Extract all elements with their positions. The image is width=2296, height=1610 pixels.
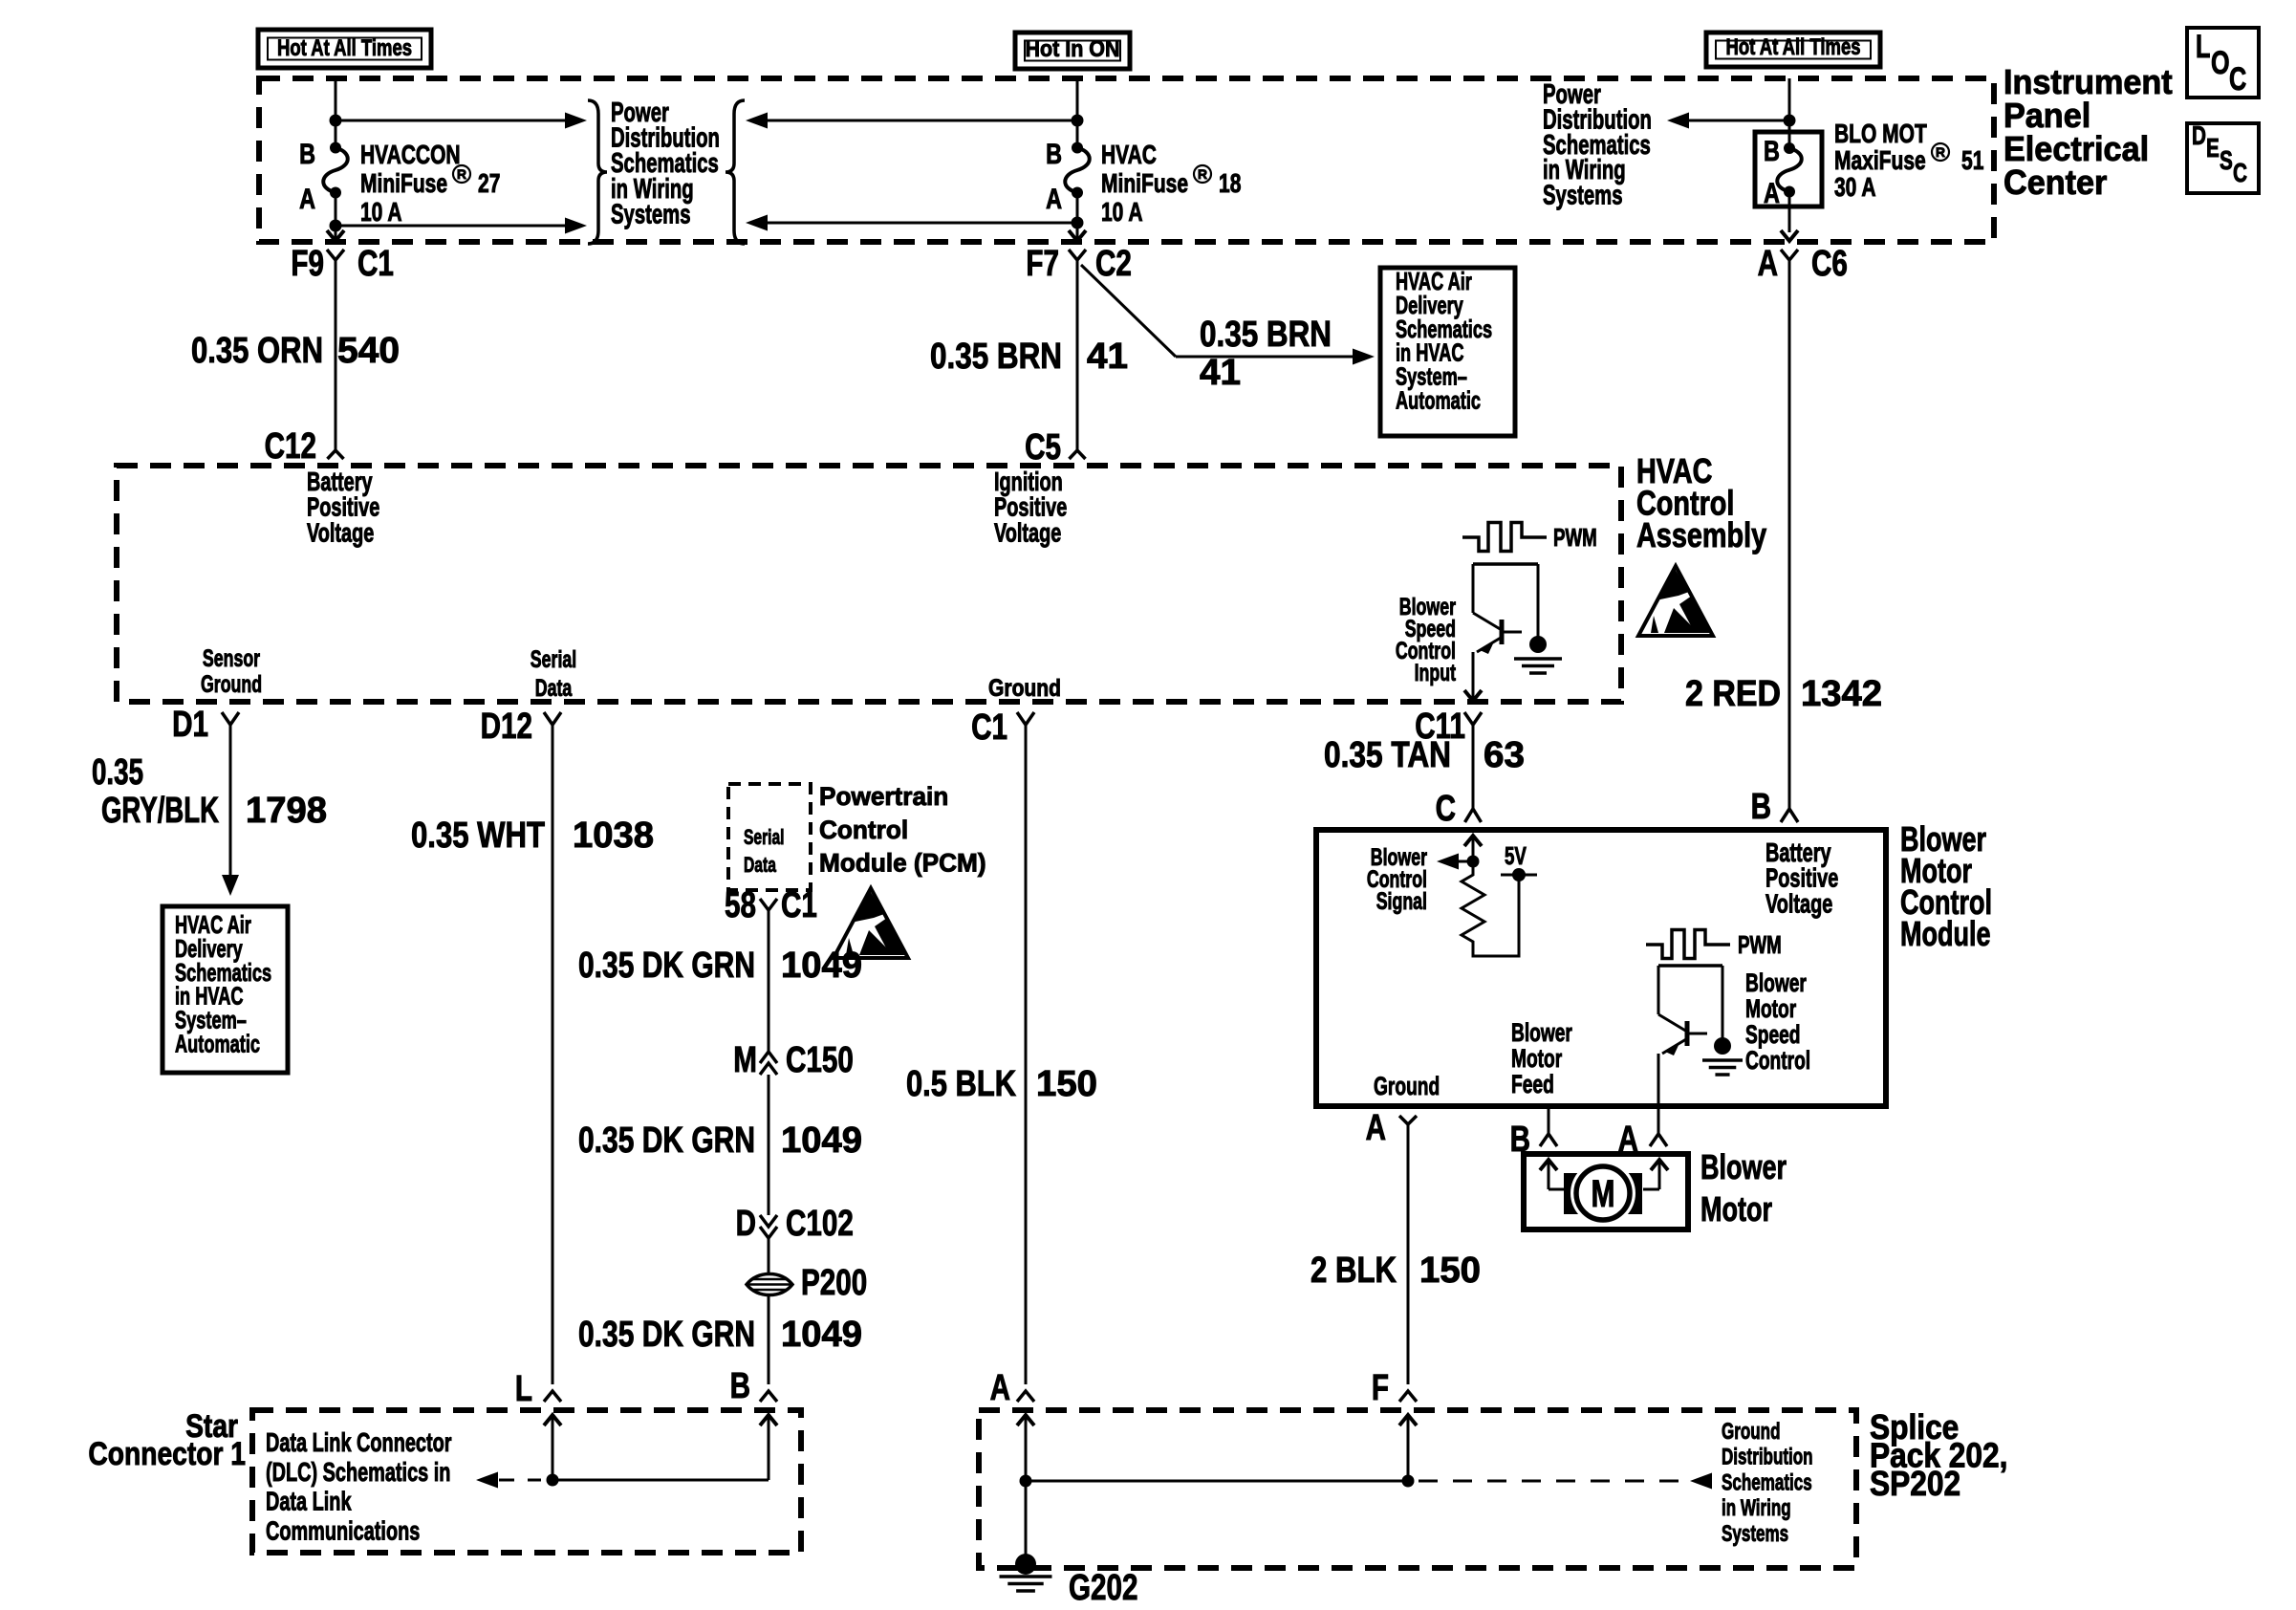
svg-text:D12: D12 (481, 707, 532, 747)
svg-text:C2: C2 (1095, 244, 1132, 284)
svg-text:(DLC) Schematics in: (DLC) Schematics in (266, 1457, 450, 1487)
svg-text:0.5 BLK: 0.5 BLK (906, 1064, 1016, 1104)
svg-text:Ground: Ground (988, 675, 1061, 702)
svg-text:Communications: Communications (266, 1515, 420, 1545)
svg-text:Hot In ON: Hot In ON (1026, 36, 1120, 62)
svg-text:63: 63 (1484, 735, 1525, 775)
svg-text:Ground: Ground (1722, 1419, 1781, 1445)
svg-text:M: M (1592, 1173, 1615, 1215)
svg-text:Control: Control (819, 816, 908, 844)
svg-text:5V: 5V (1505, 841, 1527, 870)
svg-text:C1: C1 (781, 885, 817, 925)
svg-text:0.35 BRN: 0.35 BRN (1200, 315, 1332, 355)
svg-text:Feed: Feed (1511, 1070, 1554, 1099)
svg-text:R: R (1198, 166, 1207, 182)
svg-text:A: A (299, 184, 315, 215)
svg-text:1049: 1049 (781, 1120, 862, 1161)
svg-text:Schematics: Schematics (1722, 1469, 1812, 1495)
svg-text:Module (PCM): Module (PCM) (819, 849, 986, 878)
svg-text:MaxiFuse: MaxiFuse (1834, 145, 1926, 175)
svg-text:0.35 DK GRN: 0.35 DK GRN (578, 1120, 755, 1161)
svg-text:C: C (2233, 158, 2247, 187)
svg-text:1049: 1049 (781, 946, 862, 986)
svg-text:0.35 DK GRN: 0.35 DK GRN (578, 946, 755, 986)
svg-text:Control: Control (1745, 1046, 1810, 1075)
svg-text:PWM: PWM (1553, 523, 1597, 552)
svg-text:Blower: Blower (1511, 1018, 1572, 1047)
svg-text:Data Link Connector: Data Link Connector (266, 1427, 452, 1457)
svg-text:A: A (1764, 178, 1780, 209)
svg-text:Automatic: Automatic (175, 1030, 260, 1058)
svg-text:PWM: PWM (1738, 930, 1782, 959)
svg-text:B: B (1764, 136, 1780, 167)
svg-text:B: B (299, 139, 315, 170)
svg-text:1342: 1342 (1801, 674, 1882, 714)
svg-text:M: M (733, 1040, 757, 1080)
svg-text:1038: 1038 (573, 816, 654, 856)
svg-text:1049: 1049 (781, 1315, 862, 1355)
svg-text:B: B (1751, 787, 1771, 827)
svg-text:Connector 1: Connector 1 (88, 1436, 246, 1472)
svg-text:27: 27 (478, 168, 500, 198)
svg-text:D: D (2192, 120, 2206, 150)
svg-text:Input: Input (1415, 660, 1457, 686)
svg-text:0.35 DK GRN: 0.35 DK GRN (578, 1315, 755, 1355)
svg-text:R: R (457, 166, 466, 182)
svg-text:2 RED: 2 RED (1685, 674, 1781, 714)
svg-text:10 A: 10 A (1101, 197, 1143, 227)
svg-text:Ground: Ground (1374, 1072, 1440, 1100)
svg-text:R: R (1936, 144, 1945, 160)
svg-text:O: O (2211, 45, 2230, 81)
svg-text:L: L (2196, 29, 2210, 65)
svg-text:C: C (1436, 789, 1456, 829)
svg-text:Automatic: Automatic (1396, 386, 1481, 415)
svg-text:C1: C1 (971, 707, 1007, 748)
svg-text:D: D (736, 1204, 756, 1244)
svg-text:HVACCON: HVACCON (360, 140, 461, 169)
svg-text:B: B (1510, 1120, 1530, 1160)
svg-text:Motor: Motor (1745, 994, 1797, 1023)
svg-text:B: B (730, 1366, 750, 1406)
svg-text:Signal: Signal (1376, 888, 1427, 915)
svg-text:A: A (1046, 184, 1062, 215)
svg-text:Systems: Systems (1722, 1521, 1788, 1547)
svg-text:51: 51 (1961, 145, 1983, 175)
svg-text:1798: 1798 (246, 791, 327, 831)
svg-text:C102: C102 (786, 1204, 854, 1244)
svg-text:F7: F7 (1026, 244, 1059, 284)
svg-text:Speed: Speed (1745, 1020, 1801, 1049)
svg-text:0.35 BRN: 0.35 BRN (930, 337, 1062, 377)
svg-text:A: A (1366, 1108, 1386, 1148)
svg-text:Blower: Blower (1745, 968, 1807, 997)
svg-text:150: 150 (1419, 1251, 1481, 1291)
svg-text:BLO MOT: BLO MOT (1834, 119, 1927, 148)
svg-text:58: 58 (725, 885, 756, 925)
svg-text:150: 150 (1036, 1064, 1097, 1104)
svg-text:C12: C12 (265, 426, 316, 467)
svg-text:Motor: Motor (1700, 1189, 1772, 1229)
svg-text:C5: C5 (1025, 427, 1061, 468)
svg-text:SP202: SP202 (1870, 1464, 1960, 1503)
svg-text:2 BLK: 2 BLK (1310, 1251, 1397, 1291)
svg-text:D1: D1 (172, 705, 208, 745)
svg-text:Sensor: Sensor (203, 645, 260, 672)
svg-text:Voltage: Voltage (1765, 888, 1832, 918)
svg-text:C150: C150 (786, 1040, 854, 1080)
svg-text:540: 540 (337, 331, 400, 371)
svg-text:Ground: Ground (201, 671, 262, 698)
svg-text:E: E (2206, 133, 2220, 163)
svg-text:MiniFuse: MiniFuse (360, 168, 447, 198)
svg-text:Blower: Blower (1700, 1147, 1787, 1186)
svg-text:18: 18 (1219, 168, 1241, 198)
svg-text:41: 41 (1087, 337, 1128, 377)
svg-text:Voltage: Voltage (994, 517, 1061, 547)
svg-text:P200: P200 (801, 1263, 867, 1303)
svg-text:Hot At All Times: Hot At All Times (1726, 34, 1861, 60)
svg-text:C6: C6 (1811, 244, 1848, 284)
svg-text:HVAC: HVAC (1101, 140, 1157, 169)
svg-text:Powertrain: Powertrain (819, 782, 948, 811)
svg-text:Motor: Motor (1511, 1044, 1563, 1073)
svg-text:in Wiring: in Wiring (1722, 1495, 1791, 1521)
svg-text:Data Link: Data Link (266, 1487, 352, 1516)
svg-text:F: F (1372, 1368, 1389, 1408)
svg-text:F9: F9 (291, 244, 324, 284)
svg-text:A: A (990, 1368, 1010, 1408)
svg-text:Systems: Systems (611, 199, 691, 229)
svg-text:L: L (515, 1369, 532, 1409)
svg-text:0.35 TAN: 0.35 TAN (1324, 735, 1451, 775)
svg-text:0.35 ORN: 0.35 ORN (191, 331, 323, 371)
svg-text:0.35: 0.35 (92, 752, 143, 793)
svg-text:C1: C1 (357, 244, 394, 284)
svg-text:C: C (2229, 61, 2246, 98)
svg-text:Distribution: Distribution (1722, 1445, 1813, 1470)
svg-text:Serial: Serial (531, 646, 576, 673)
svg-text:Serial: Serial (744, 825, 785, 849)
svg-text:0.35 WHT: 0.35 WHT (411, 816, 545, 856)
svg-text:Hot At All Times: Hot At All Times (277, 35, 412, 61)
svg-text:Module: Module (1900, 914, 1991, 953)
svg-text:10 A: 10 A (360, 197, 402, 227)
svg-text:G202: G202 (1069, 1568, 1138, 1608)
svg-text:A: A (1618, 1120, 1638, 1160)
svg-text:Voltage: Voltage (307, 517, 374, 547)
svg-text:Systems: Systems (1543, 181, 1623, 211)
svg-text:A: A (1758, 244, 1778, 284)
svg-text:Data: Data (744, 853, 776, 877)
svg-text:MiniFuse: MiniFuse (1101, 168, 1188, 198)
svg-text:Assembly: Assembly (1636, 515, 1766, 555)
svg-text:30 A: 30 A (1834, 172, 1876, 202)
svg-text:Center: Center (2004, 163, 2107, 202)
svg-text:41: 41 (1200, 353, 1241, 393)
svg-text:GRY/BLK: GRY/BLK (101, 791, 219, 831)
svg-text:Data: Data (535, 675, 573, 702)
svg-text:S: S (2220, 145, 2233, 175)
svg-text:B: B (1046, 139, 1062, 170)
